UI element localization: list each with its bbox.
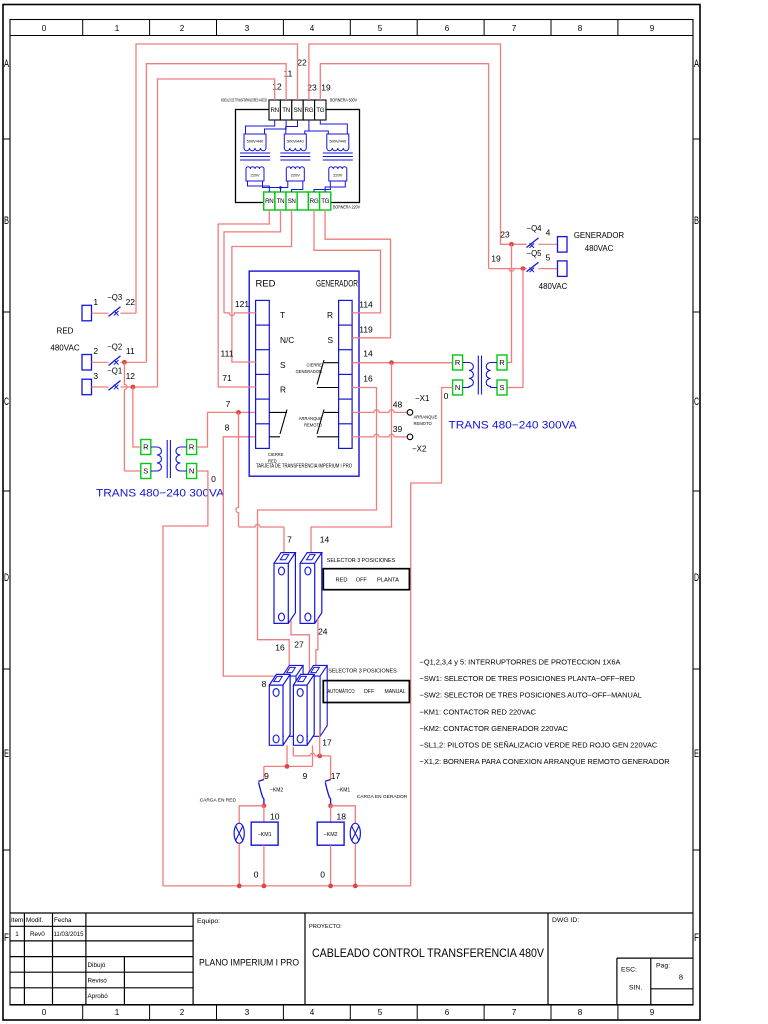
svg-text:14: 14 [320,534,330,544]
selector SW2 right block [306,665,327,736]
svg-text:12: 12 [126,371,136,381]
terminal 5 [558,261,568,277]
svg-text:S: S [280,360,286,370]
svg-text:RG: RG [305,107,314,114]
wire 7 down to SW1 [236,412,239,527]
svg-text:39: 39 [393,424,403,434]
wire 18 to lamp SL2 [331,806,356,823]
node wire 12 [131,385,136,390]
svg-text:TN: TN [282,107,290,114]
svg-text:AUTOMÁTICO: AUTOMÁTICO [328,688,355,695]
card contact arranque remoto [317,410,339,437]
wire 7 trans1 R to card [197,412,256,447]
svg-text:Aprobó: Aprobó [88,993,109,1000]
svg-text:−SL1,2: PILOTOS DE SEÑALIZACIO: −SL1,2: PILOTOS DE SEÑALIZACIO VERDE RED… [420,740,658,749]
selector SW1 left block [274,553,295,624]
card contact cierre generador [317,360,339,388]
lamp SL1 carga en red [234,823,244,843]
svg-text:220V: 220V [291,173,300,178]
svg-text:SELECTOR 3 POSICIONES: SELECTOR 3 POSICIONES [328,668,397,674]
wire 14 card to trans2 R [352,362,453,364]
svg-text:R: R [327,310,333,320]
svg-text:1: 1 [93,297,98,307]
wire 12 RN to Q1 [158,79,275,387]
wire 8 card to SW2 [223,437,277,681]
svg-text:−X1: −X1 [415,394,430,403]
svg-text:22: 22 [126,297,136,307]
svg-text:R: R [455,358,461,367]
svg-text:12: 12 [272,81,282,91]
svg-text:N/C: N/C [280,335,294,345]
wire 24 SW1 to SW2 [316,618,318,668]
svg-text:6: 6 [445,1007,450,1017]
transformer T2 core [280,152,310,154]
wire 16 card to SW2 [258,388,377,668]
svg-text:E: E [694,748,699,760]
svg-text:17: 17 [322,737,332,747]
svg-text:0: 0 [254,869,259,879]
svg-text:BORNERA 500V: BORNERA 500V [330,98,358,103]
svg-text:0: 0 [320,869,325,879]
svg-text:2: 2 [180,1007,185,1017]
wire 121 TN220 to card T [224,313,256,316]
transformer T1 core [240,152,270,154]
svg-text:N: N [189,466,194,475]
svg-text:8: 8 [578,23,583,33]
svg-text:27: 27 [294,639,304,649]
svg-text:−KM1: −KM1 [258,832,272,838]
wire 19 to trans2 S [507,269,523,388]
svg-text:8: 8 [225,422,230,432]
wire 12 to trans1 R [133,387,141,447]
module internal wiring secondary side [248,181,346,192]
breaker Q4 [527,238,539,248]
wire 39 card to X2 [352,434,407,437]
svg-text:R: R [499,358,505,367]
transformer T3 core [323,152,353,154]
svg-text:GENERADOR: GENERADOR [574,231,625,240]
svg-text:PLANTA: PLANTA [377,577,399,583]
svg-text:MODULO DE TRANSFORMADORES 440/: MODULO DE TRANSFORMADORES 440/220 [221,98,267,103]
bottom ruler band [10,1004,693,1006]
svg-text:0: 0 [444,391,449,401]
svg-text:−Q1: −Q1 [107,366,122,375]
svg-text:5: 5 [378,23,383,33]
svg-text:48: 48 [393,399,403,409]
svg-text:2: 2 [93,346,98,356]
wire 111 SN220 to card S [232,210,292,362]
svg-text:7: 7 [226,399,231,409]
svg-text:−KM2: −KM2 [270,787,283,793]
svg-text:S: S [143,466,148,475]
svg-text:−KM2: −KM2 [324,832,338,838]
svg-text:11/03/2015: 11/03/2015 [54,931,85,938]
svg-text:19: 19 [491,253,501,263]
svg-text:3: 3 [93,371,98,381]
svg-text:Fecha: Fecha [54,917,72,924]
transformer TRANS1 480-240 300VA [141,440,151,455]
svg-text:Equipo:: Equipo: [197,918,220,925]
node wire 10 [262,803,267,808]
svg-text:Pag:: Pag: [656,962,670,969]
svg-text:0: 0 [211,474,216,484]
selector SW2 position box [323,681,409,703]
svg-text:RN: RN [271,107,279,114]
svg-text:S: S [499,383,504,392]
svg-text:16: 16 [363,373,373,383]
svg-text:TN: TN [277,198,285,205]
wire 0 trans1 N [163,471,208,886]
svg-text:GENERADOR: GENERADOR [316,278,358,288]
svg-text:R: R [280,384,286,394]
svg-text:TARJETA DE TRANSFERENCIA IMPER: TARJETA DE TRANSFERENCIA IMPERIUM I PRO [256,463,352,469]
terminal strip 500V top [269,100,326,120]
svg-text:DWG ID:: DWG ID: [552,917,579,924]
wire 17 net below SW2 [292,747,294,756]
contact KM2 NC [258,780,264,806]
svg-text:S: S [327,335,333,345]
node wire 18 [328,803,333,808]
svg-text:−Q2: −Q2 [107,342,122,351]
wire 14 down to SW1 [311,363,392,558]
wire 71 RN220 to card R [218,210,269,387]
svg-text:B: B [4,215,9,227]
svg-text:TG: TG [321,198,329,205]
breaker Q5 [527,262,539,272]
svg-text:114: 114 [359,299,373,309]
svg-text:111: 111 [221,348,234,358]
svg-text:OFF: OFF [364,689,375,695]
svg-text:Dibujó: Dibujó [88,962,106,969]
transformer T2 secondary 220V [286,167,304,181]
svg-text:71: 71 [222,373,232,383]
svg-text:CARGA EN RED: CARGA EN RED [200,797,237,803]
svg-text:−SW2: SELECTOR DE TRES POSICIO: −SW2: SELECTOR DE TRES POSICIONES AUTO−O… [420,691,642,700]
svg-text:RED: RED [57,327,74,336]
svg-text:SIN.: SIN. [629,984,642,991]
row tick marks [3,139,700,850]
breaker Q3 [92,312,109,314]
wire 0 bottom rail [163,885,411,887]
svg-text:−KM1: CONTACTOR RED 220VAC: −KM1: CONTACTOR RED 220VAC [420,707,537,716]
terminal X2 [407,434,413,440]
svg-text:24: 24 [318,626,328,636]
transformer T1 primary 500V/440 [244,134,266,151]
node wire 7 [236,410,241,415]
svg-text:RN: RN [265,198,273,205]
wire 11 TN to Q2 [146,64,286,363]
transformer module box [236,110,360,203]
svg-text:4: 4 [546,227,551,237]
svg-text:8: 8 [679,972,683,981]
wire 11 to trans1 S [124,362,127,471]
svg-text:B: B [694,215,699,227]
svg-text:GENERADOR: GENERADOR [296,369,322,374]
svg-text:500V/440: 500V/440 [287,139,304,144]
svg-text:RED: RED [336,577,348,583]
svg-text:−X2: −X2 [412,445,427,454]
svg-text:REMOTO: REMOTO [414,421,433,426]
svg-text:−Q3: −Q3 [107,293,122,302]
svg-text:−SW1: SELECTOR DE TRES POSICIO: −SW1: SELECTOR DE TRES POSICIONES PLANTA… [420,674,635,683]
terminal strip 220V bottom green [264,192,331,210]
svg-text:R: R [143,442,149,451]
svg-text:220V: 220V [333,173,342,178]
svg-text:2: 2 [180,23,185,33]
svg-text:OFF: OFF [356,577,368,583]
svg-text:18: 18 [337,811,347,821]
transfer card outline [249,271,359,476]
svg-text:1: 1 [115,23,120,33]
svg-text:1: 1 [115,1007,120,1017]
svg-text:TRANS 480−240 300VA: TRANS 480−240 300VA [96,487,225,499]
svg-text:17: 17 [331,771,341,781]
svg-text:RED: RED [256,278,276,288]
svg-text:CABLEADO CONTROL TRANSFERENCIA: CABLEADO CONTROL TRANSFERENCIA 480V [312,946,545,960]
svg-text:PLANO IMPERIUM I PRO: PLANO IMPERIUM I PRO [199,957,299,967]
svg-text:4: 4 [310,1007,315,1017]
svg-text:A: A [694,58,699,70]
svg-text:480VAC: 480VAC [539,282,568,291]
svg-text:A: A [4,58,9,70]
svg-text:3: 3 [245,1007,250,1017]
svg-text:RG: RG [310,198,319,205]
svg-text:T: T [280,310,285,320]
svg-text:23: 23 [500,229,510,239]
svg-text:CIERRE: CIERRE [307,363,323,368]
svg-text:SELECTOR 3 POSICIONES: SELECTOR 3 POSICIONES [327,558,396,564]
svg-text:ESC:: ESC: [621,966,637,973]
svg-text:−X1,2: BORNERA PARA CONEXION A: −X1,2: BORNERA PARA CONEXION ARRANQUE RE… [420,757,670,766]
svg-text:−KM1: −KM1 [337,787,350,793]
svg-text:F: F [4,932,9,944]
svg-text:121: 121 [235,299,249,309]
svg-text:5: 5 [378,1007,383,1017]
svg-text:5: 5 [546,252,551,262]
svg-text:8: 8 [262,679,267,689]
svg-text:D: D [694,572,699,584]
wire 27 SW1 to SW2 [291,621,309,678]
svg-text:F: F [694,932,699,944]
wire 23 RG to Q4 [309,44,527,244]
svg-text:SN: SN [288,198,296,205]
svg-text:REMOTO: REMOTO [304,423,322,428]
svg-text:9: 9 [650,23,655,33]
terminal 3 [82,379,92,395]
contact KM1 NC [325,780,331,806]
svg-text:ARRANQUE: ARRANQUE [414,415,438,420]
transformer TRANS2 480-240 300VA [453,355,463,370]
breaker Q1 [92,386,109,388]
wire 9 net below SW2 [286,745,288,766]
wire 0 trans2 N [411,388,453,886]
svg-text:R: R [189,442,195,451]
svg-text:16: 16 [275,642,285,652]
svg-text:1: 1 [15,931,19,938]
selector SW1 right block [300,553,322,624]
svg-text:−Q4: −Q4 [527,224,543,233]
svg-text:480VAC: 480VAC [585,244,614,253]
svg-text:BORNERA 220V: BORNERA 220V [333,205,361,210]
lamp SL2 carga en generador [350,823,360,843]
svg-text:0: 0 [42,1007,47,1017]
svg-text:TRANS 480−240 300VA: TRANS 480−240 300VA [449,419,578,431]
terminal X1 [407,410,413,416]
svg-text:220V: 220V [250,173,259,178]
svg-text:0: 0 [42,23,47,33]
transformer T1 secondary 220V [246,167,264,181]
node 19 junction [521,266,526,271]
node wire 11 [122,360,127,365]
svg-text:480VAC: 480VAC [50,344,79,353]
svg-text:22: 22 [297,57,307,67]
wire 119 TG220 to card S gen [325,210,390,338]
wire 10 to lamp SL1 [239,806,264,823]
svg-text:TG: TG [316,107,324,114]
svg-text:Revisó: Revisó [88,977,108,984]
svg-text:6: 6 [445,23,450,33]
svg-text:11: 11 [284,68,293,78]
svg-text:E: E [4,748,9,760]
card contact cierre red [269,410,287,437]
svg-text:7: 7 [512,23,517,33]
wire 23 to trans2 R [507,244,512,362]
transformer T3 secondary 220V [329,167,347,181]
svg-text:CARGA EN GERADOR: CARGA EN GERADOR [357,794,408,800]
terminal 4 [558,237,568,253]
terminal 2 [82,355,92,371]
title block grid [10,913,693,1005]
svg-text:Item: Item [11,917,23,924]
svg-text:C: C [694,396,699,408]
transformer T2 primary 500V/440 [284,134,306,151]
svg-text:9: 9 [303,771,308,781]
svg-text:500V/440: 500V/440 [247,139,264,144]
transformer T3 primary 500V/440 [327,134,349,151]
svg-text:3: 3 [245,23,250,33]
svg-text:119: 119 [359,324,373,334]
svg-text:10: 10 [270,811,280,821]
node 23 junction [509,242,514,247]
svg-text:N: N [455,383,460,392]
svg-text:CIERRE: CIERRE [268,452,284,457]
svg-text:9: 9 [650,1007,655,1017]
svg-text:C: C [4,396,9,408]
wire 22 SN to Q3 [136,44,298,313]
wire 19 TG to Q5 [489,269,527,272]
module internal wiring primary side [246,120,348,134]
svg-text:−Q5: −Q5 [527,249,543,258]
svg-text:4: 4 [310,23,315,33]
svg-text:7: 7 [287,534,292,544]
svg-text:PROYECTO:: PROYECTO: [309,924,342,930]
svg-text:−KM2: CONTACTOR GENERADOR 220: −KM2: CONTACTOR GENERADOR 220VAC [420,724,569,733]
svg-text:D: D [4,572,9,584]
svg-text:Modif.: Modif. [26,917,43,924]
top ruler band [10,35,693,37]
breaker Q2 [92,361,109,363]
svg-text:Rev0: Rev0 [30,931,45,938]
svg-text:9: 9 [264,771,269,781]
svg-text:ARRANQUE: ARRANQUE [299,416,322,421]
terminal 1 [82,305,92,321]
svg-text:8: 8 [578,1007,583,1017]
card right terminal column [339,300,353,448]
svg-text:19: 19 [321,82,331,92]
svg-text:SN: SN [294,107,302,114]
svg-text:7: 7 [512,1007,517,1017]
card left terminal column [256,300,270,448]
svg-text:−Q1,2,3,4 y 5: INTERRUPTORRES: −Q1,2,3,4 y 5: INTERRUPTORRES DE PROTECC… [420,657,621,666]
wire 48 card to X1 [352,410,407,413]
selector SW2 left block [282,665,303,736]
svg-text:MANUAL: MANUAL [385,689,406,695]
selector SW1 position box [323,569,409,590]
svg-text:500V/440: 500V/440 [329,139,346,144]
svg-text:11: 11 [126,346,135,356]
wire 114 RG220 to card R gen [314,210,381,313]
svg-text:14: 14 [363,348,373,358]
